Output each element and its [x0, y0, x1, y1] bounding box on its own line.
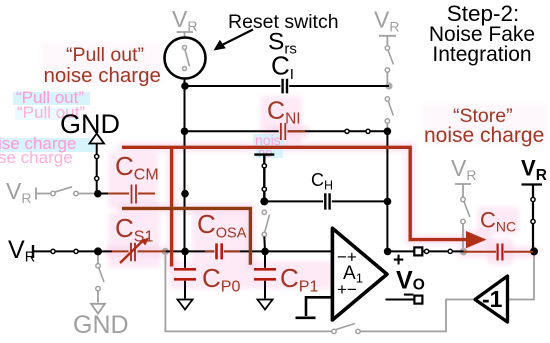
VR supply terminal bar top-right	[379, 36, 396, 45]
wire gray VR column to CNC node	[462, 224, 464, 249]
wire GND top column	[97, 144, 110, 194]
terminal square Vo-	[414, 296, 422, 304]
node CH left / T column	[260, 197, 268, 205]
highlight glow of capacitor CP1	[249, 261, 333, 289]
node reset column / net2	[181, 128, 189, 136]
node GND column / CCM wire	[94, 190, 102, 198]
op-amp A1	[332, 228, 387, 320]
switch blade feedback (open)	[335, 324, 356, 331]
wire reset column x=184.5	[184, 79, 186, 252]
wire Vo- terminal	[386, 299, 415, 301]
svg-text:“Pull out”: “Pull out”	[66, 44, 144, 66]
node CCM / reset column	[181, 190, 189, 198]
wire top-right column segment	[386, 72, 388, 85]
wire summing input row y=251.4	[33, 250, 332, 252]
contact of reset switch top	[183, 46, 187, 50]
contacts of feedback switch	[332, 329, 336, 333]
node CNC / VR right	[530, 247, 538, 255]
wire at capacitor CNC (red)	[464, 251, 534, 253]
pull-out noise-charge vertical path (red)	[170, 147, 173, 266]
highlight glow of wire at capacitor CS1	[110, 245, 166, 257]
highlight glow of capacitor CP0	[169, 261, 255, 289]
ghost artifact text "Pull out" line 1	[13, 92, 90, 105]
wire top-right column segment 2	[386, 123, 388, 130]
highlight glow of brown pull-out path	[122, 208, 250, 264]
reset switch Srs blade (open)	[185, 49, 190, 67]
store path arrowhead into CNC	[466, 231, 487, 248]
highlight glow of wire at capacitor CNI	[272, 125, 305, 137]
capacitor CS1 (variable)	[131, 243, 135, 261]
node input row / GND branch	[94, 247, 102, 255]
node CH right / output column	[384, 198, 392, 206]
ghost artifact text "no" below store path	[256, 148, 283, 158]
VR terminal bar and wire left-mid	[36, 188, 94, 200]
variable-capacitor arrow of CS1	[120, 241, 143, 264]
capacitor COSA	[217, 243, 222, 259]
gray junction dot at CNC	[460, 248, 468, 256]
highlight glow of arrowhead	[470, 230, 482, 250]
highlight glow of capacitor CCM	[108, 152, 158, 209]
node output / Vo+	[384, 248, 392, 256]
VR supply terminal bar above reset switch	[177, 32, 194, 37]
wire feedback from -1 output to input node	[165, 253, 331, 331]
capacitor CI	[283, 79, 287, 94]
wire below CH-column switch	[263, 237, 266, 252]
wire at capacitor COSA (red)	[205, 250, 240, 252]
contacts of VR gray switch right-mid	[461, 197, 465, 201]
capacitor CP1	[254, 269, 276, 279]
svg-text:GND: GND	[73, 311, 129, 339]
VR terminal bar right-mid gray	[455, 184, 471, 197]
capacitor CNI	[281, 123, 285, 140]
highlight glow of pull-out caption	[42, 42, 162, 85]
contacts of closed switch GND top column	[95, 154, 99, 158]
wire net2 (CNI row, y=131.3)	[185, 130, 388, 132]
highlight glow of capacitor CNI	[260, 96, 302, 146]
highlight glow of store caption	[422, 104, 548, 144]
ground arrow symbol top-left (GND reference)	[90, 134, 105, 144]
terminal T and wire of CH column	[254, 155, 274, 202]
gray junction dot feedback on input wire	[162, 248, 169, 255]
reset switch Srs circle	[165, 38, 206, 79]
wire net3 (CH row, y=201.4)	[264, 200, 387, 202]
contacts of GND switch bottom-left	[96, 264, 100, 268]
ground symbol below capacitor CP0	[178, 300, 193, 310]
annotation arrow to reset switch	[223, 30, 253, 45]
wire feedback right section	[361, 300, 474, 332]
wire at capacitor CS1 (red)	[112, 250, 165, 252]
wire output to Vo+ terminal	[388, 250, 464, 252]
capacitor CP0	[174, 269, 196, 279]
wire CNC node to -1 input	[509, 254, 534, 300]
switch blade GND bottom-left (open)	[99, 267, 105, 282]
wire at capacitor CCM (red)	[108, 193, 155, 195]
capacitor CH	[325, 193, 329, 209]
wire net1 (CI top plate row, y=86)	[185, 85, 389, 87]
contacts of VR switch left-mid	[51, 191, 55, 195]
contacts of wire1-wire2 switch top-right	[385, 97, 389, 101]
contacts of closed input switch (VR to summing row)	[51, 249, 55, 253]
ghost artifact text "ise charge"	[0, 138, 95, 152]
svg-text:Integration: Integration	[432, 43, 531, 66]
highlight glow of store noise path	[122, 147, 470, 239]
VR input terminal bar bottom-left	[32, 245, 34, 258]
VR terminal bar and closed switch column far right	[522, 185, 543, 252]
ground at op-amp A1 lower input	[296, 297, 333, 318]
ground symbol below capacitor CP1	[258, 300, 273, 310]
contacts of closed switch CH column	[262, 164, 266, 168]
contacts of closed switch far-right VR	[531, 197, 535, 201]
wire at capacitor CNI (red)	[288, 130, 306, 132]
node net2 / output column	[384, 128, 392, 136]
wire output column x=387.4	[386, 131, 388, 251]
ground arrow symbol (gray, inactive)	[91, 304, 105, 314]
svg-text:GND: GND	[60, 109, 120, 139]
highlight glow of capacitor CNC	[477, 207, 519, 234]
highlight glow of capacitor CS1	[108, 212, 160, 268]
svg-text:noise charge: noise charge	[44, 64, 161, 87]
contacts of closed switch on net2	[345, 129, 349, 133]
highlight glow of pull-out vertical path	[167, 147, 177, 266]
switch blade CH-column to summing node (open)	[265, 215, 270, 233]
switch blade VR left-mid (open)	[54, 187, 73, 193]
switch blade VR right-mid (open)	[464, 201, 470, 217]
inverting amplifier (-1)	[475, 276, 508, 322]
node input row / CP1	[261, 248, 269, 256]
wire capacitor CP1 column	[264, 251, 266, 298]
highlight glow of wire at capacitor CNC	[462, 246, 533, 258]
contacts of CH-column switch	[262, 210, 266, 214]
store noise-charge highlighted path (red)	[122, 147, 468, 239]
highlight glow of capacitor COSA	[192, 210, 250, 264]
svg-text:−: −	[403, 285, 414, 306]
wire capacitor CP0 column	[184, 251, 186, 298]
node reset switch / net1	[181, 82, 189, 90]
switch blade VR-to-wire1 (open)	[388, 50, 394, 65]
ghost artifact text "nois" near capacitor CNI	[253, 134, 284, 146]
terminal square Vo+	[414, 247, 422, 255]
ghost artifact text "Pull out" line 2	[15, 107, 80, 120]
switch blade wire1-to-wire2 (open)	[388, 101, 393, 116]
svg-text:se charge: se charge	[0, 148, 73, 167]
capacitor CCM	[132, 185, 137, 204]
contact of reset switch bottom	[183, 67, 187, 71]
pull-out noise-charge path (brown)	[122, 208, 250, 264]
contacts of VR switch top-right	[385, 46, 389, 50]
wire to gray ground arrow	[97, 291, 99, 303]
capacitor CNC	[498, 244, 503, 261]
svg-text:noise charge: noise charge	[424, 124, 544, 147]
wire GND branch bottom-left	[97, 254, 99, 264]
svg-text:-1: -1	[482, 286, 503, 312]
node input row / CP0	[181, 248, 189, 256]
gray junction dot on wire1	[385, 82, 392, 89]
contacts of closed switch at Vo+	[425, 249, 429, 253]
